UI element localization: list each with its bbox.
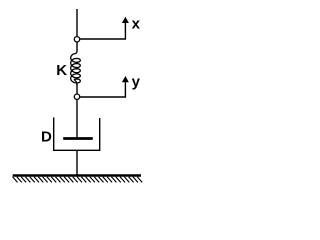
damper rod upper xyxy=(76,100,78,138)
spring bottom hook xyxy=(74,80,77,85)
svg-text:x: x xyxy=(132,15,141,32)
svg-text:y: y xyxy=(132,73,141,90)
wire node2 to y-arrow corner xyxy=(80,82,125,98)
arrowhead y xyxy=(122,76,129,82)
damper rod lower xyxy=(76,150,78,174)
svg-text:D: D xyxy=(41,128,52,145)
damper cylinder cup xyxy=(54,118,100,151)
spring helix xyxy=(71,54,81,83)
wire node1 to spring top xyxy=(76,42,78,51)
node 1 (upper) xyxy=(74,37,79,42)
damper piston plate xyxy=(63,137,93,140)
wire top vertical xyxy=(76,9,78,36)
spring K coil xyxy=(71,52,81,85)
arrowhead x xyxy=(122,17,129,23)
node 2 (lower) xyxy=(74,94,79,99)
ground line xyxy=(13,174,141,177)
svg-text:K: K xyxy=(56,62,67,79)
spring top hook xyxy=(74,52,77,54)
wire node1 to x-arrow corner xyxy=(80,23,125,40)
wire spring bottom to node 2 xyxy=(76,84,78,94)
ground hatching xyxy=(13,177,143,183)
